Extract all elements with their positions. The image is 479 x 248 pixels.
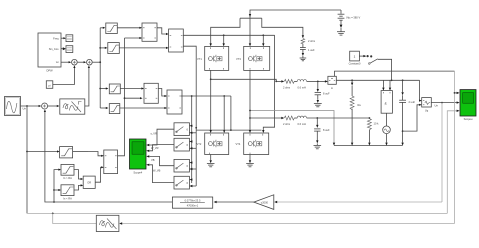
svg-text:VT2: VT2: [197, 142, 202, 146]
breaker switch: [359, 55, 391, 80]
snubber capacitor: [300, 48, 315, 57]
logical OR block: [83, 176, 95, 188]
relay block B mid: [109, 104, 120, 114]
relay block A mid: [109, 84, 120, 94]
wire SW2 to scope in2, net label W_VR: [146, 145, 174, 152]
svg-text:VB: VB: [151, 158, 155, 162]
wire relay B to C2 in2: [120, 107, 167, 109]
gate bus vertical x=191.7: [189, 96, 192, 183]
svg-text:VT3: VT3: [236, 57, 241, 61]
wire C1 out to C2 in1: [158, 89, 167, 98]
feedback line B horizontal: [27, 213, 447, 215]
load capacitor 2 uuF: [399, 80, 415, 145]
feedback line A vertical: [441, 103, 443, 202]
feedback tap vertical x=54: [53, 169, 61, 203]
wire gate bus to lower bridge rail: [196, 96, 261, 131]
svg-text:VT4: VT4: [236, 142, 241, 146]
svg-text:Rн: Rн: [358, 103, 362, 107]
load resistor Rn: [350, 80, 361, 145]
wire gate F out1 to VT1 and VT3 gates: [183, 34, 274, 133]
comparator block D: [104, 150, 118, 174]
logic block E: [142, 23, 157, 41]
svg-text:wt: wt: [56, 60, 59, 64]
svg-text:8 uuF: 8 uuF: [323, 128, 330, 132]
load bus: [336, 79, 419, 81]
relay block R2: [61, 164, 74, 180]
scope Scope4 (green, flipped): [130, 139, 147, 175]
ground below capacitor 2: [314, 143, 322, 148]
wire relay B' to F in2: [119, 47, 168, 49]
wire R3 to OR: [74, 184, 83, 190]
scope Scope1 (green): [460, 90, 476, 121]
measured current wire to right: [335, 71, 455, 76]
voltage measurement block: [381, 80, 392, 113]
logic block C2: [167, 90, 182, 114]
svg-text:2 ohm: 2 ohm: [283, 122, 290, 126]
svg-text:Sin_Cos: Sin_Cos: [49, 47, 60, 51]
PLL block DPW: [38, 33, 61, 73]
IGBT block VT3: [236, 46, 270, 70]
svg-text:2 ohm: 2 ohm: [283, 85, 290, 89]
wire sine to sumA: [21, 105, 42, 111]
filter branch 2: R 2 ohm, L 0.6 mH: [250, 116, 369, 126]
RMS block: [403, 80, 432, 131]
AC meter circle: [383, 113, 391, 145]
svg-text:In > RA: In > RA: [63, 176, 72, 180]
wire pi to sum1 bottom: [53, 65, 76, 84]
relay block R3: [61, 185, 74, 201]
wire SW3 to scope in3, net label VB: [146, 155, 174, 166]
ground below capacitor 1: [314, 104, 322, 107]
svg-text:2 uuF: 2 uuF: [409, 100, 416, 104]
svg-text:W_VR: W_VR: [151, 146, 159, 150]
IGBT block VT4: [236, 133, 269, 155]
vertical wire x=124.5 (carrier): [118, 37, 143, 156]
display Freq: [66, 35, 73, 42]
wire Sin_Cos: [61, 47, 66, 50]
constant 1 block: [349, 51, 361, 65]
svg-text:s_VR: s_VR: [151, 131, 157, 135]
wire leg2 return to bottom bus: [249, 110, 335, 146]
wire OR to D in2: [95, 166, 104, 182]
svg-text:0.6 mH: 0.6 mH: [298, 85, 306, 89]
wire C2 out to VT2 gate: [181, 95, 231, 133]
leg1 midpoint wire VT1 emitter to VT2 collector: [210, 70, 212, 133]
wire R1 to D in1: [73, 152, 104, 157]
wire RMS out to scope: [431, 101, 459, 107]
IGBT block VT2: [197, 133, 229, 155]
DC voltage source Vdc = 380 V: [338, 10, 361, 28]
wire sine reference down x=27: [26, 106, 28, 213]
wire PWM gen up to sum2 bottom: [85, 65, 90, 106]
switch block SW2: [174, 138, 189, 151]
ground below snubber: [300, 56, 307, 61]
logic block C1: [144, 83, 158, 103]
sine wave source: [5, 97, 21, 116]
reference generator block (double sine icon): [96, 215, 119, 231]
wire R2 to OR: [74, 170, 83, 180]
wire wt to sum1: [61, 61, 71, 63]
svg-text:OR: OR: [87, 181, 91, 185]
svg-text:47000s+1: 47000s+1: [187, 204, 199, 208]
svg-text:Ue: Ue: [23, 107, 27, 111]
IGBT block VT1: [197, 46, 229, 70]
svg-text:m: m: [331, 87, 333, 90]
sum junction 2: [87, 59, 93, 65]
svg-text:Vdc = 380 V: Vdc = 380 V: [346, 15, 360, 19]
wire sumA to PWM generator: [48, 105, 59, 107]
filter capacitor 2: [314, 118, 330, 143]
svg-text:2 ohm: 2 ohm: [308, 39, 315, 43]
svg-text:0.6 mH: 0.6 mH: [298, 122, 306, 126]
PWM generator block (double sine icon): [60, 99, 85, 114]
wire relay A to C1 in1: [120, 87, 144, 89]
svg-text:Freq: Freq: [53, 36, 59, 40]
svg-text:Uн: Uн: [435, 104, 439, 108]
transfer function block: [172, 197, 253, 208]
svg-text:u2000: u2000: [261, 200, 269, 204]
sum junction 1: [72, 59, 78, 65]
switch block SW4: [174, 176, 189, 189]
svg-text:8 uuF: 8 uuF: [323, 92, 330, 96]
bottom node bus: [334, 145, 403, 147]
snubber resistor 2 ohm: [301, 39, 315, 48]
wire feedback B to scope in3: [447, 110, 459, 214]
leg2 midpoint wire VT3 emitter to VT4 collector: [249, 70, 251, 133]
svg-text:VT1: VT1: [197, 57, 202, 61]
DC+ rail from source: [210, 10, 342, 46]
ground below VT4: [246, 155, 254, 167]
wire leg1 to filter branch 1: [211, 79, 282, 82]
constant pi: [46, 81, 53, 89]
svg-text:DPW: DPW: [46, 69, 53, 73]
relay block B': [108, 43, 120, 54]
svg-text:1 uuF: 1 uuF: [308, 48, 315, 52]
gain triangle: [254, 195, 442, 210]
wire sum1 to sum2: [78, 61, 87, 63]
wire relay A' to E: [117, 27, 142, 29]
wire current meas to scope in1: [454, 71, 460, 223]
svg-text:In < RA: In < RA: [63, 196, 72, 200]
wire Freq: [61, 37, 66, 39]
svg-text:0.0778s+23.5: 0.0778s+23.5: [185, 199, 201, 203]
filter branch 1: R 2 ohm, L 0.6 mH: [281, 79, 328, 89]
svg-text:Vн: Vн: [384, 101, 388, 105]
feedback wire to input sum: [44, 109, 172, 202]
ground below Vdc: [337, 28, 345, 35]
ground below VT2: [207, 155, 215, 167]
filter capacitor 1: [315, 81, 330, 103]
wire reference to relay R1: [27, 150, 60, 152]
current measurement block: [328, 76, 336, 90]
resistor 10 k: [367, 117, 379, 146]
wire E out to F in1: [157, 28, 169, 35]
svg-text:Scope4: Scope4: [133, 171, 142, 175]
svg-text:Uq: Uq: [425, 108, 429, 112]
svg-text:Scopeн: Scopeн: [464, 117, 473, 121]
sum junction A: [42, 103, 48, 109]
feedback line C with reference generator: [53, 213, 455, 224]
svg-text:W_VB: W_VB: [153, 168, 161, 172]
wire SW1 to scope in1, net label a_VR: [146, 129, 174, 146]
switch block SW1: [174, 123, 189, 136]
svg-text:10 k: 10 k: [374, 121, 380, 125]
gate bus vertical x=196.2 from F out2: [183, 46, 197, 187]
relay block R1: [60, 147, 73, 158]
display Sin_Cos: [66, 46, 73, 53]
vertical distribution wire x=100: [99, 27, 108, 109]
switch block SW3: [174, 159, 189, 172]
relay block A' top: [106, 23, 118, 34]
wire sum2 out to comparator column: [93, 61, 101, 63]
logic block F: [169, 29, 184, 52]
wire SW4 to scope in4, net label W_VB: [146, 164, 174, 183]
svg-text:Constant0: Constant0: [349, 62, 361, 66]
